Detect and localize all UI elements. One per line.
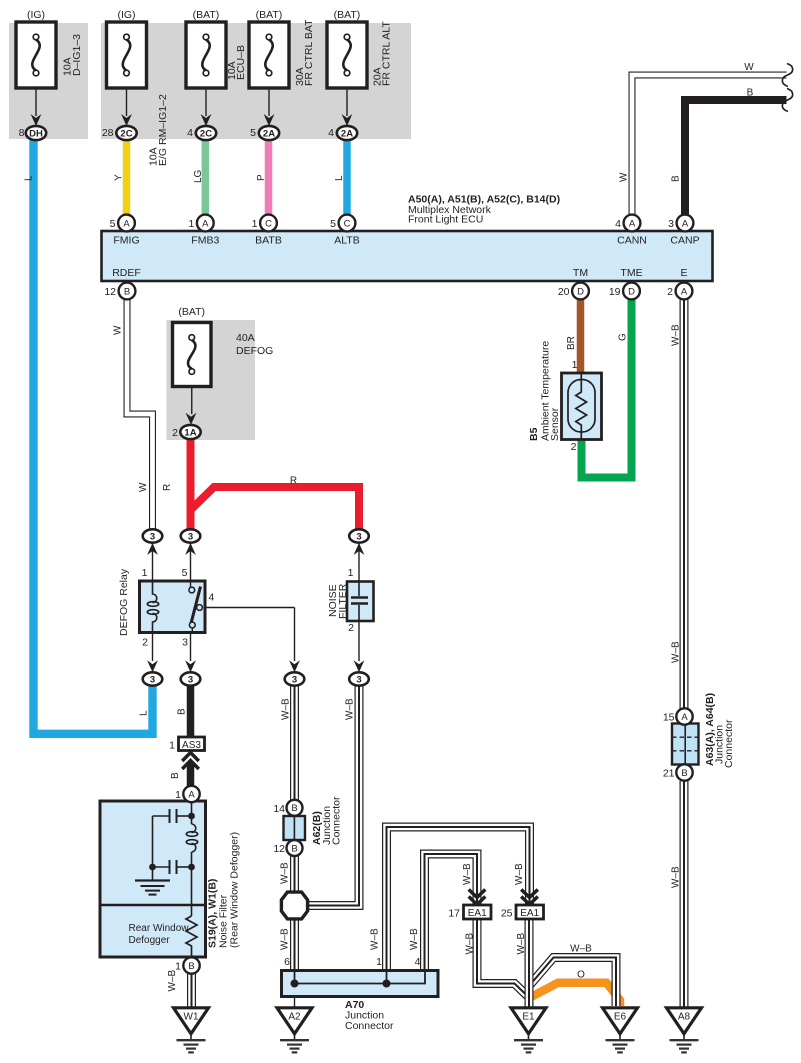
- 40A DEFOG fuse output line and arrow to 1A: [191, 387, 193, 415]
- svg-text:1: 1: [348, 567, 354, 579]
- svg-text:W–B: W–B: [281, 698, 292, 720]
- svg-text:DEFOG Relay: DEFOG Relay: [118, 568, 130, 636]
- connector 3 relay pin2 bottom: [143, 672, 163, 685]
- svg-text:B: B: [291, 843, 297, 854]
- DEFOG relay: [140, 581, 206, 633]
- ECU pin 19 D TME: [623, 283, 640, 300]
- connector 3 noise filter top: [349, 529, 369, 542]
- svg-text:3: 3: [356, 674, 361, 685]
- svg-text:(BAT): (BAT): [256, 9, 283, 21]
- svg-text:EA1: EA1: [520, 908, 539, 919]
- svg-text:20: 20: [558, 286, 570, 298]
- svg-text:Connector: Connector: [723, 719, 735, 768]
- svg-text:2: 2: [142, 637, 148, 649]
- junction connector A63 A64: [672, 724, 699, 765]
- svg-text:W1: W1: [184, 1011, 199, 1022]
- svg-text:3: 3: [292, 674, 297, 685]
- svg-text:ECU–B: ECU–B: [235, 45, 247, 80]
- wire W RDEF to relay pin 1 connector: [127, 299, 153, 529]
- defogger pin 1 A: [183, 786, 199, 802]
- svg-text:Rear Window: Rear Window: [129, 923, 190, 934]
- svg-text:FMIG: FMIG: [113, 235, 139, 247]
- svg-text:DEFOG: DEFOG: [236, 345, 273, 357]
- svg-text:EA1: EA1: [468, 908, 487, 919]
- svg-text:(BAT): (BAT): [334, 9, 361, 21]
- A63 pin 15 A: [676, 708, 692, 724]
- svg-text:W–B: W–B: [280, 928, 291, 950]
- svg-text:FR CTRL BAT: FR CTRL BAT: [303, 19, 315, 86]
- svg-text:FR CTRL ALT: FR CTRL ALT: [381, 21, 393, 86]
- connector 25 EA1: [516, 905, 544, 919]
- wire break symbol B: [782, 89, 792, 112]
- fuse 3 output line and arrow: [205, 88, 207, 116]
- svg-text:3: 3: [668, 218, 674, 230]
- ambient temperature sensor B5: [562, 373, 602, 440]
- svg-text:1: 1: [252, 218, 258, 230]
- svg-text:W–B: W–B: [280, 862, 291, 884]
- svg-text:14: 14: [273, 803, 285, 815]
- fuse 1 output line and arrow to DH: [35, 88, 37, 116]
- relay pin3 line and arrow to connector: [190, 633, 192, 661]
- wire W-B A70 pin 4 to EA1 17: [425, 854, 478, 970]
- svg-text:O: O: [577, 970, 585, 981]
- chevron arrows above EA1 17: [469, 890, 486, 905]
- ECU pin 4 A CANN: [624, 215, 641, 232]
- wire R red from 40A DEFOG fuse to relay pin 5 and noise filter: [187, 438, 195, 529]
- svg-text:A: A: [202, 218, 209, 229]
- svg-text:2A: 2A: [341, 128, 353, 139]
- svg-text:5: 5: [110, 218, 116, 230]
- junction dots: [188, 813, 195, 820]
- ECU pin 1 C BATB: [260, 215, 277, 232]
- fuse 10A ECU-B: [186, 22, 226, 88]
- svg-text:B: B: [671, 175, 682, 182]
- wire break symbol W: [782, 64, 792, 87]
- svg-text:R: R: [162, 484, 173, 491]
- svg-text:E1: E1: [522, 1011, 535, 1022]
- svg-text:B: B: [124, 286, 130, 297]
- fuse 10A D-IG1-3: [16, 22, 56, 88]
- fuse 20A FR CTRL ALT: [327, 22, 367, 88]
- svg-text:C: C: [265, 218, 272, 229]
- wire W-B A70 pin 1 to EA1 25: [387, 827, 530, 970]
- junction connector A62: [284, 816, 306, 840]
- connector 3 relay pin3 bottom: [181, 672, 201, 685]
- svg-text:BATB: BATB: [255, 235, 282, 247]
- connector 3 noise filter bottom: [349, 672, 369, 685]
- svg-text:E/G RM–IG1–2: E/G RM–IG1–2: [157, 94, 169, 166]
- svg-text:1A: 1A: [184, 427, 196, 438]
- svg-text:W: W: [744, 62, 754, 73]
- wire LG FMB3: [202, 139, 210, 215]
- svg-text:W–B: W–B: [671, 324, 682, 346]
- wire W-B relay pin4 connector to A62 connector: [290, 686, 299, 800]
- fuse 10A E/G RM-IG1-2: [107, 22, 147, 88]
- relay pin2 line and arrow to connector: [152, 633, 154, 661]
- wire W CANN to right edge: [632, 75, 787, 215]
- wire B black relay pin3 to AS3: [187, 684, 195, 738]
- svg-text:W–B: W–B: [516, 933, 527, 955]
- svg-text:FILTER: FILTER: [337, 583, 349, 619]
- svg-text:B: B: [681, 768, 687, 779]
- ground E1: [511, 1008, 546, 1053]
- connector 8 DH: [26, 126, 46, 140]
- fuse panel right (IG/BAT group): [101, 23, 411, 139]
- wire BR to ambient temperature sensor: [577, 299, 585, 375]
- wire W-B below EA1 25 to E1 ground: [525, 919, 534, 1007]
- svg-text:2: 2: [348, 622, 354, 634]
- svg-text:6: 6: [284, 956, 290, 968]
- svg-text:W–B: W–B: [465, 933, 476, 955]
- svg-text:E6: E6: [614, 1011, 627, 1022]
- svg-text:Y: Y: [114, 174, 125, 181]
- wire W-B octagon to A70 pin 6: [290, 919, 299, 971]
- svg-text:W: W: [138, 482, 149, 492]
- svg-text:W–B: W–B: [462, 863, 473, 885]
- svg-text:B: B: [747, 88, 754, 99]
- connector 3 relay pin1 top: [143, 529, 163, 542]
- svg-text:1: 1: [169, 740, 175, 752]
- svg-text:15: 15: [663, 712, 675, 724]
- svg-text:A2: A2: [288, 1011, 301, 1022]
- svg-text:Front Light ECU: Front Light ECU: [408, 214, 483, 226]
- wire L ALTB: [343, 139, 351, 215]
- connector 5 2A: [259, 126, 279, 140]
- ground W1: [174, 1008, 209, 1053]
- chevron arrows above EA1 25: [521, 890, 538, 905]
- svg-text:D: D: [628, 286, 635, 297]
- left branch wire: [152, 816, 154, 867]
- ECU pin 3 A CANP: [677, 215, 694, 232]
- fuse 40A DEFOG: [173, 323, 212, 387]
- connector 17 EA1: [464, 905, 492, 919]
- ECU pin 5 C ALTB: [339, 215, 356, 232]
- svg-text:5: 5: [182, 567, 188, 579]
- A70 internal bus: [295, 971, 426, 984]
- svg-text:A: A: [188, 789, 195, 800]
- svg-text:5: 5: [330, 218, 336, 230]
- svg-text:Defogger: Defogger: [129, 935, 171, 946]
- svg-text:B: B: [177, 708, 188, 715]
- capacitor C2 bottom: [169, 860, 171, 874]
- svg-text:4: 4: [328, 127, 334, 139]
- ground A2: [277, 1008, 312, 1053]
- capacitor C1 top: [169, 809, 171, 823]
- svg-text:Sensor: Sensor: [549, 407, 561, 441]
- A62 pin 14 B: [287, 800, 303, 816]
- noise filter box: [347, 582, 374, 622]
- wire W-B defogger pin B to W1 ground: [187, 974, 196, 1008]
- defogger pin 1 B: [183, 957, 199, 973]
- svg-text:1: 1: [376, 956, 382, 968]
- svg-text:B: B: [170, 772, 181, 779]
- svg-text:2A: 2A: [263, 128, 275, 139]
- svg-text:(IG): (IG): [117, 9, 135, 21]
- svg-text:19: 19: [609, 286, 621, 298]
- svg-text:BR: BR: [566, 336, 577, 350]
- svg-text:W–B: W–B: [570, 944, 592, 955]
- wire O orange E1 to E6: [531, 983, 620, 1006]
- svg-text:TME: TME: [620, 267, 642, 279]
- svg-text:3: 3: [150, 674, 155, 685]
- wire B black CANP: [685, 100, 787, 215]
- internal ground symbol: [152, 867, 154, 880]
- svg-text:21: 21: [663, 768, 675, 780]
- svg-text:2C: 2C: [120, 128, 132, 139]
- wire P BATB: [265, 139, 273, 215]
- connector arrows into relay row ovals: [152, 543, 154, 580]
- fuse panel left (IG): [9, 23, 88, 139]
- A62 pin 12 B: [287, 840, 303, 856]
- chevron splice arrows below AS3: [182, 753, 199, 770]
- svg-text:W–B: W–B: [514, 863, 525, 885]
- svg-text:A: A: [682, 218, 689, 229]
- svg-text:40A: 40A: [236, 332, 255, 344]
- svg-text:AS3: AS3: [182, 740, 201, 751]
- fuse panel 40A DEFOG: [167, 320, 256, 440]
- svg-text:5: 5: [250, 127, 256, 139]
- ground E6: [603, 1008, 638, 1053]
- svg-text:B: B: [291, 803, 297, 814]
- svg-text:1: 1: [175, 789, 181, 801]
- svg-text:3: 3: [182, 637, 188, 649]
- svg-text:1: 1: [142, 567, 148, 579]
- svg-text:17: 17: [448, 908, 460, 920]
- svg-text:1: 1: [572, 359, 578, 371]
- svg-text:E: E: [680, 267, 687, 279]
- fuse 5 output line and arrow: [346, 88, 348, 116]
- ECU A50 A51 A52 B14 Multiplex Network Front Light ECU: [102, 231, 713, 281]
- ground A8: [667, 1008, 702, 1053]
- svg-text:FMB3: FMB3: [191, 235, 219, 247]
- ECU pin 12 B RDEF: [119, 283, 136, 300]
- svg-text:L: L: [334, 175, 345, 181]
- svg-text:4: 4: [209, 592, 215, 604]
- defogger resistor: [186, 916, 197, 957]
- svg-text:2: 2: [172, 427, 178, 439]
- svg-text:W–B: W–B: [345, 698, 356, 720]
- ECU pin 1 A FMB3: [197, 215, 214, 232]
- svg-text:28: 28: [102, 127, 114, 139]
- svg-text:B: B: [188, 961, 194, 972]
- svg-text:LG: LG: [193, 169, 204, 183]
- octagon junction node: [281, 892, 307, 919]
- svg-text:C: C: [344, 218, 351, 229]
- svg-text:W–B: W–B: [671, 641, 682, 663]
- svg-text:W–B: W–B: [409, 928, 420, 950]
- svg-text:(IG): (IG): [27, 9, 45, 21]
- svg-text:4: 4: [187, 127, 193, 139]
- svg-text:3: 3: [356, 531, 361, 542]
- svg-text:A: A: [681, 286, 688, 297]
- svg-text:ALTB: ALTB: [334, 235, 359, 247]
- relay pin4 wire to connector: [202, 607, 295, 609]
- connector 2 1A: [180, 425, 200, 439]
- A63 pin 21 B: [676, 764, 692, 780]
- svg-text:W–B: W–B: [370, 928, 381, 950]
- svg-text:A: A: [123, 218, 130, 229]
- wire W-B below EA1 17 to E1: [477, 919, 529, 998]
- A70 pin6 line to A2 ground: [294, 970, 296, 1007]
- fuse 30A FR CTRL BAT: [249, 22, 289, 88]
- svg-text:CANP: CANP: [670, 235, 699, 247]
- svg-text:TM: TM: [573, 267, 588, 279]
- defogger noise filter internals: [191, 803, 193, 825]
- wire W-B from A63 connector to A8 ground: [680, 781, 689, 1007]
- svg-text:DH: DH: [29, 128, 43, 139]
- fuse 2 output line and arrow: [126, 88, 128, 116]
- fuse 4 output line and arrow: [268, 88, 270, 116]
- connector 4 2A: [337, 126, 357, 140]
- svg-text:RDEF: RDEF: [112, 267, 141, 279]
- svg-text:1: 1: [188, 218, 194, 230]
- wire Y FMIG: [123, 139, 131, 215]
- svg-text:W: W: [113, 325, 124, 335]
- ECU pin 20 D TM: [572, 283, 589, 300]
- ECU pin 5 A FMIG: [118, 215, 135, 232]
- rear window defogger S19 W1 box: [100, 801, 206, 957]
- wire W-B noise filter connector down to octagon joint: [309, 686, 359, 906]
- connector 3 relay pin5 top: [181, 529, 201, 542]
- connector 4 2C: [196, 126, 216, 140]
- svg-text:D–IG1–3: D–IG1–3: [71, 34, 83, 76]
- svg-text:4: 4: [415, 956, 421, 968]
- svg-text:W–B: W–B: [167, 970, 178, 992]
- svg-text:A: A: [681, 712, 688, 723]
- svg-text:A: A: [629, 218, 636, 229]
- svg-text:4: 4: [615, 218, 621, 230]
- wire W-B from ECU pin E down to A63 connector: [680, 299, 689, 709]
- connector 3 relay pin4 bottom: [285, 672, 305, 685]
- svg-text:P: P: [256, 174, 267, 181]
- svg-text:D: D: [577, 286, 584, 297]
- wire G from sensor to TME: [582, 299, 632, 478]
- connector AS3: [179, 737, 205, 751]
- svg-text:3: 3: [188, 674, 193, 685]
- connector 28 2G: [116, 126, 136, 140]
- noise filter pin2 line and arrow to connector: [358, 621, 360, 661]
- svg-text:3: 3: [150, 531, 155, 542]
- svg-text:2C: 2C: [200, 128, 212, 139]
- wire W-B from E1 up to E6 ground: [529, 958, 616, 1007]
- svg-text:2: 2: [571, 441, 577, 453]
- svg-text:12: 12: [104, 286, 116, 298]
- svg-text:Connector: Connector: [345, 1020, 394, 1032]
- svg-text:W: W: [619, 172, 630, 182]
- svg-text:3: 3: [188, 531, 193, 542]
- svg-text:(Rear Window Defogger): (Rear Window Defogger): [229, 832, 241, 948]
- svg-text:G: G: [618, 333, 629, 341]
- junction connector A70: [282, 971, 439, 997]
- svg-text:Connector: Connector: [331, 796, 343, 845]
- svg-text:A8: A8: [678, 1011, 691, 1022]
- ECU pin 2 A E: [676, 283, 693, 300]
- svg-text:25: 25: [501, 908, 513, 920]
- svg-text:R: R: [290, 476, 297, 487]
- svg-text:CANN: CANN: [617, 235, 647, 247]
- svg-text:8: 8: [19, 127, 25, 139]
- svg-text:L: L: [139, 710, 150, 716]
- svg-text:12: 12: [273, 843, 285, 855]
- svg-text:B5: B5: [528, 427, 540, 441]
- wire L blue from DH to defog relay pin 2 connector: [34, 139, 153, 734]
- svg-text:(BAT): (BAT): [178, 306, 205, 318]
- wire W-B A62 to octagon joint: [290, 856, 299, 893]
- svg-text:L: L: [24, 175, 35, 181]
- wire B black AS3 to defogger pin A: [187, 762, 195, 787]
- svg-text:2: 2: [667, 286, 673, 298]
- svg-text:(BAT): (BAT): [193, 9, 220, 21]
- svg-text:W–B: W–B: [671, 866, 682, 888]
